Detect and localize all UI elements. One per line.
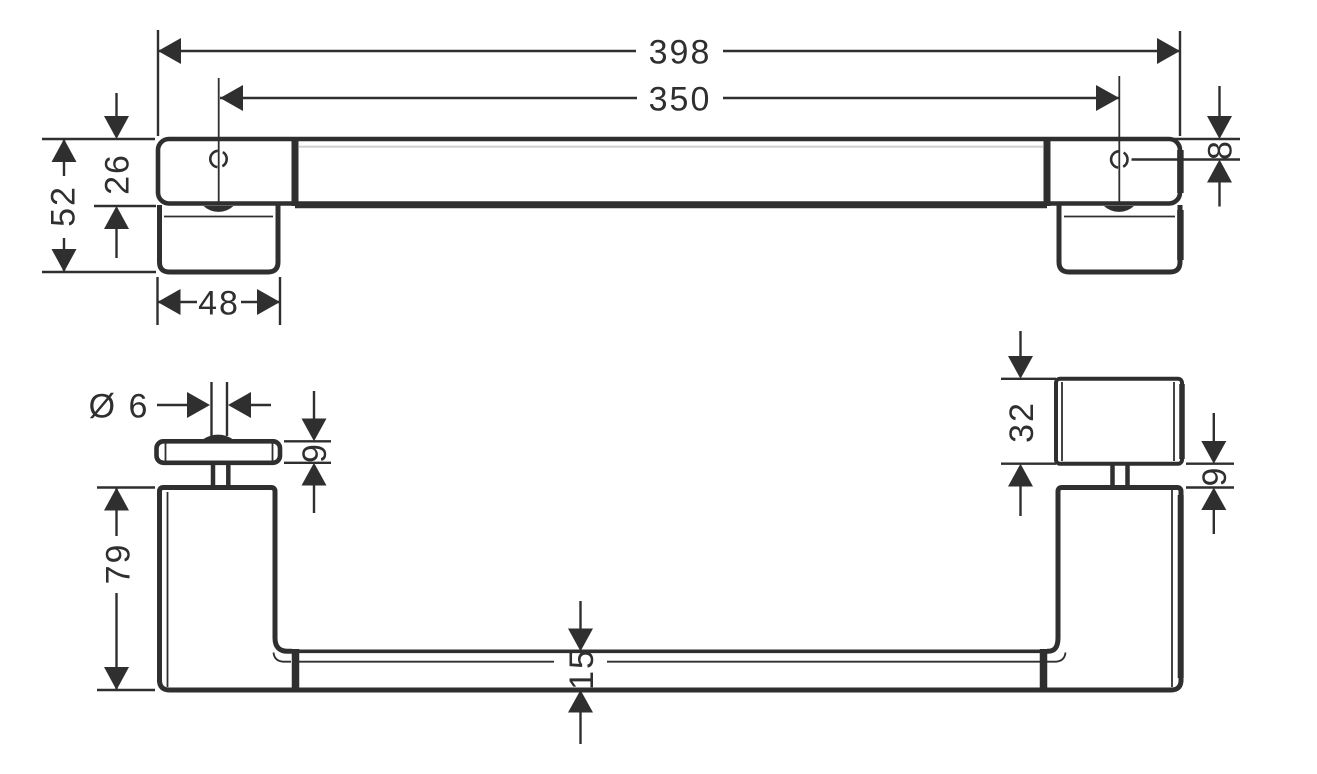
left rosette divider xyxy=(292,139,299,206)
screw shaft lines xyxy=(212,382,228,436)
run inner edge xyxy=(299,661,1040,663)
dimension 48 line xyxy=(158,301,281,303)
dimension 398 extension line left xyxy=(157,30,159,136)
dimension 9 left upper line with arrow xyxy=(313,391,315,419)
screw head bump xyxy=(203,435,233,440)
left seam xyxy=(292,649,300,689)
dimension diameter 6 line right with arrow xyxy=(249,404,271,406)
dimension 9 right extension lines xyxy=(1186,464,1234,488)
bar inner highlight line xyxy=(299,146,1043,148)
svg-text:79: 79 xyxy=(100,543,138,585)
dimension 26 lower line with arrow xyxy=(115,229,117,258)
clamp plate inner edge right xyxy=(1173,382,1175,461)
dimension 350 arrow right xyxy=(1096,85,1119,111)
dimension 79 extension bottom xyxy=(97,689,155,691)
left foot xyxy=(160,205,279,272)
dimension 8 lower line with arrow xyxy=(1218,182,1220,207)
run top edge xyxy=(299,649,1040,653)
dimension 9 left extension lines xyxy=(284,441,331,463)
right rosette divider xyxy=(1044,139,1051,206)
body right edge accent xyxy=(1178,495,1184,678)
left post outline xyxy=(160,488,293,683)
clamp plate inner edge left xyxy=(1061,382,1063,461)
bar bottom edge accent xyxy=(295,203,1047,209)
dimension 8 extension lines xyxy=(1132,139,1241,160)
right foot right edge accent xyxy=(1177,210,1184,260)
svg-text:Ø 6: Ø 6 xyxy=(89,388,150,426)
right body outline xyxy=(1047,488,1181,683)
clamp pin left xyxy=(1110,464,1115,486)
dimension diameter 6 line left with arrow xyxy=(157,404,189,406)
dimension 398 extension line right xyxy=(1179,31,1181,136)
dimension 32 extension top xyxy=(1001,378,1056,380)
right seam xyxy=(1040,649,1048,689)
dimension 32 extension bottom xyxy=(1001,463,1056,465)
dimension 398 line xyxy=(158,50,1180,52)
clamp pin right xyxy=(1125,464,1130,486)
svg-text:398: 398 xyxy=(649,34,712,72)
dimension 48 arrow right xyxy=(257,289,280,315)
dimension 15 lower line with arrow xyxy=(579,712,581,744)
right body inner edge xyxy=(1171,490,1173,687)
svg-text:26: 26 xyxy=(99,153,137,195)
dimension 48 extension lines xyxy=(158,277,281,325)
left screw hole xyxy=(210,151,226,167)
dimension 8 upper line with arrow xyxy=(1218,86,1220,117)
svg-text:9: 9 xyxy=(1196,466,1234,487)
right hole centerline xyxy=(1118,76,1120,203)
dimension 350 arrow left xyxy=(220,85,243,111)
dimension 79 arrow bottom xyxy=(104,667,129,690)
left post inner edge xyxy=(167,492,169,687)
flange inner edge right xyxy=(272,444,274,461)
dimension 32 upper line with arrow xyxy=(1019,331,1021,356)
clamp right edge accent xyxy=(1179,384,1185,459)
svg-text:9: 9 xyxy=(296,442,334,463)
dimension 79 arrow top xyxy=(104,488,129,511)
extension line bar top left xyxy=(42,138,155,140)
bar right edge accent xyxy=(1177,150,1184,193)
dimension 9 left lower line with arrow xyxy=(313,485,315,513)
handle bar outline xyxy=(158,139,1180,204)
right foot gasket bump xyxy=(1104,206,1134,212)
flange inner edge left xyxy=(165,444,167,461)
flange plate xyxy=(157,441,281,463)
dimension 52 line xyxy=(63,139,65,272)
dimension 398 arrow left xyxy=(158,38,181,64)
dimension 32 lower line with arrow xyxy=(1019,487,1021,517)
left hole centerline xyxy=(218,78,220,204)
svg-text:8: 8 xyxy=(1202,139,1240,160)
neck left line xyxy=(211,463,216,486)
clamp plate (top rectangle) xyxy=(1056,379,1182,464)
svg-text:48: 48 xyxy=(198,285,240,323)
dimension 15 upper line with arrow xyxy=(579,601,581,629)
extension line bar bottom left xyxy=(94,205,156,207)
dimension 398 arrow right xyxy=(1157,38,1180,64)
dimension 79 line xyxy=(115,488,117,691)
right foot xyxy=(1059,205,1180,272)
dimension 52 arrow top xyxy=(52,139,77,162)
neck right line xyxy=(226,463,231,486)
dimension 26 upper line with arrow xyxy=(115,93,117,117)
left foot inner edge xyxy=(164,216,273,218)
dimension 9 right upper line with arrow xyxy=(1213,413,1215,441)
right body fillet inner line xyxy=(1046,653,1066,662)
extension line foot bottom left xyxy=(42,271,156,273)
dimension 48 arrow left xyxy=(158,289,181,315)
dimension 79 extension top xyxy=(97,486,155,488)
left foot gasket bump xyxy=(204,206,234,212)
dimension 52 arrow bottom xyxy=(52,249,77,272)
dimension 9 right lower line with arrow xyxy=(1213,510,1215,534)
svg-text:32: 32 xyxy=(1003,401,1041,443)
right foot inner edge xyxy=(1064,216,1175,218)
dimension 350 line xyxy=(220,97,1119,99)
right screw hole xyxy=(1111,151,1127,167)
svg-text:52: 52 xyxy=(45,185,83,227)
svg-text:350: 350 xyxy=(649,81,712,119)
left post fillet inner line xyxy=(274,653,292,662)
svg-text:15: 15 xyxy=(563,648,601,690)
run bottom edge xyxy=(160,680,1182,690)
